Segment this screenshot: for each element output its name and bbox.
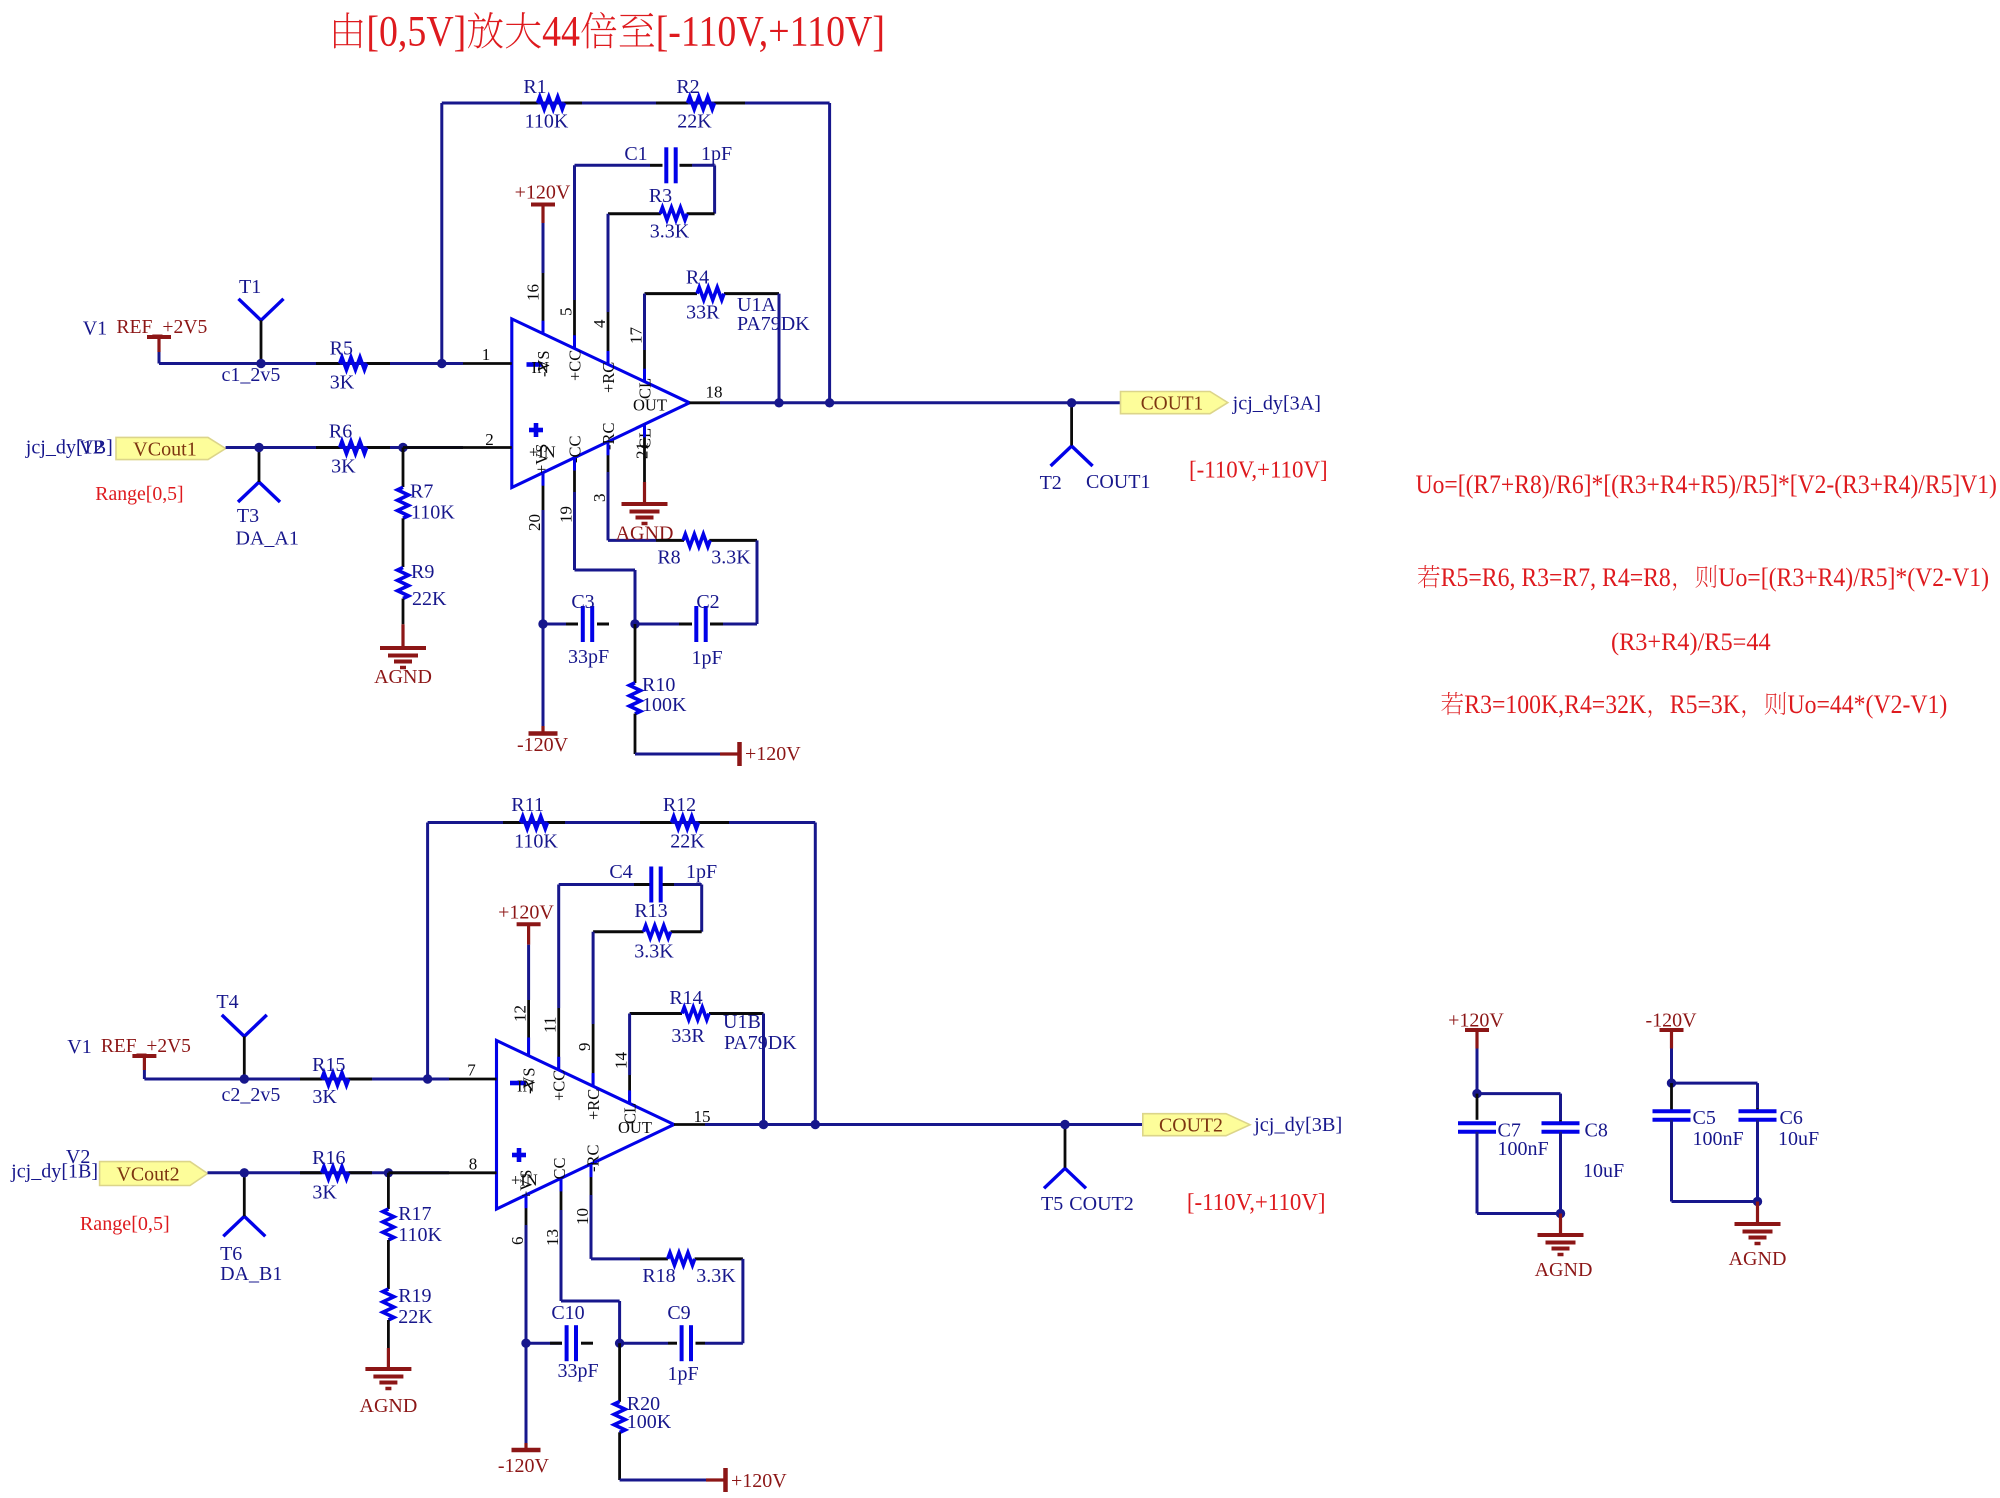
svg-text:-120V: -120V — [517, 734, 569, 756]
resistor R3 3.3K — [608, 185, 715, 243]
ground AGND below R19 — [360, 1320, 418, 1417]
svg-text:COUT2: COUT2 — [1069, 1193, 1133, 1215]
svg-text:+120V: +120V — [498, 902, 554, 924]
svg-text:4: 4 — [590, 319, 609, 328]
svg-text:C3: C3 — [571, 591, 594, 613]
svg-text:COUT1: COUT1 — [1086, 471, 1150, 493]
node: junction C6 bottom — [1753, 1197, 1762, 1206]
svg-text:22K: 22K — [398, 1306, 433, 1328]
power port REF_+2V5 (V1) — [83, 316, 208, 352]
red formula line 1 — [1416, 469, 1997, 499]
power port -120V below pin 20 — [517, 726, 569, 756]
svg-text:VCout2: VCout2 — [116, 1164, 179, 1186]
pin 1 (-IN) lead — [442, 345, 512, 364]
svg-text:DA_B1: DA_B1 — [220, 1263, 282, 1285]
svg-text:33pF: 33pF — [568, 646, 609, 668]
resistor R18 3.3K — [640, 1253, 743, 1287]
svg-text:3K: 3K — [312, 1086, 337, 1108]
net label jcj_dy[3B] — [1253, 1114, 1342, 1136]
svg-text:100nF: 100nF — [1693, 1128, 1744, 1150]
svg-text:C8: C8 — [1585, 1120, 1608, 1142]
svg-text:+120V: +120V — [515, 182, 571, 204]
pin 16 (-VS) lead — [524, 273, 544, 334]
svg-text:OUT: OUT — [618, 1118, 652, 1137]
svg-text:[0,5V]: [0,5V] — [366, 9, 466, 56]
node: junction T4/c2_2v5 — [240, 1074, 249, 1083]
svg-text:C9: C9 — [667, 1302, 690, 1324]
svg-text:[-110V,+110V]: [-110V,+110V] — [1189, 457, 1328, 484]
svg-text:(R3+R4)/R5=44: (R3+R4)/R5=44 — [1611, 627, 1771, 656]
svg-text:C2: C2 — [696, 591, 719, 613]
power port +120V (pin 12 supply) — [498, 902, 554, 945]
svg-text:+CC: +CC — [566, 350, 585, 381]
svg-text:R18: R18 — [642, 1265, 675, 1287]
resistor R13 3.3K — [593, 900, 702, 963]
red annotation Range[0,5] — [95, 483, 183, 505]
svg-text:Uo=[(R7+R8)/R6]*[(R3+R4+R5)/R5: Uo=[(R7+R8)/R6]*[(R3+R4+R5)/R5]*[V2-(R3+… — [1416, 469, 1997, 499]
red annotation [-110V,+110V] bottom — [1187, 1189, 1326, 1216]
wire: R4 right to output node — [778, 294, 781, 403]
svg-text:3K: 3K — [331, 456, 356, 478]
svg-text:REF_+2V5: REF_+2V5 — [101, 1035, 191, 1057]
power port -120V decoupling — [1645, 1010, 1697, 1049]
node: junction C10/C9/R20 — [615, 1339, 624, 1348]
testpoint T2 COUT1 — [1040, 403, 1151, 494]
svg-text:R5: R5 — [330, 338, 353, 360]
testpoint T1 — [239, 276, 284, 364]
power port REF_+2V5 bottom (V1) — [67, 1035, 191, 1070]
svg-text:R14: R14 — [669, 987, 702, 1009]
testpoint T3 DA_A1 — [236, 448, 299, 550]
resistor R14 33R — [630, 987, 764, 1047]
wire: R17 to R19 — [387, 1240, 390, 1289]
svg-text:Uo=[(R3+R4)/R5]*(V2-V1): Uo=[(R3+R4)/R5]*(V2-V1) — [1718, 563, 1989, 592]
svg-text:+RC: +RC — [584, 1089, 603, 1120]
svg-text:22K: 22K — [412, 588, 447, 610]
svg-text:22K: 22K — [670, 831, 705, 853]
resistor R17 110K — [383, 1173, 443, 1246]
svg-text:3K: 3K — [312, 1182, 337, 1204]
wire: +120V to pin 12 — [527, 945, 530, 1000]
power port -120V below pin 6 — [498, 1443, 550, 1477]
svg-text:COUT1: COUT1 — [1141, 393, 1204, 415]
svg-text:8: 8 — [469, 1155, 478, 1174]
svg-text:DA_A1: DA_A1 — [236, 528, 299, 550]
node: junction C8 bottom — [1556, 1209, 1565, 1218]
node: junction T6 — [240, 1168, 249, 1177]
svg-text:3: 3 — [590, 494, 609, 503]
svg-text:Uo=44*(V2-V1): Uo=44*(V2-V1) — [1788, 690, 1948, 719]
pin 3 (-RC) lead and wire to R8 — [590, 442, 656, 540]
svg-text:C4: C4 — [609, 861, 632, 883]
sheet entry V2 overlapping net label jcj_dy[1B] — [25, 437, 113, 459]
capacitor C6 10uF — [1739, 1107, 1820, 1150]
svg-text:T4: T4 — [216, 991, 238, 1013]
resistor R2 22K — [656, 76, 745, 133]
op-amp U1B PA79DK — [497, 1011, 798, 1209]
wire: pin5 to C1 left — [575, 165, 651, 300]
power port +120V (pin 16 supply) — [515, 182, 571, 224]
svg-text:110K: 110K — [514, 831, 558, 853]
resistor R5 3K — [316, 338, 390, 394]
pin 7 (-IN) lead — [428, 1061, 497, 1080]
wire: R18 right to C9 right — [741, 1259, 744, 1343]
wire: feedback rail bottom (R11/R12 row) — [428, 823, 816, 1125]
svg-text:R15: R15 — [312, 1054, 345, 1076]
wire: pin 17 to R4 — [643, 294, 646, 350]
power port +120V right of R10 — [720, 742, 801, 766]
svg-text:3.3K: 3.3K — [711, 547, 751, 569]
resistor R1 110K — [520, 76, 582, 133]
svg-text:21: 21 — [633, 442, 652, 459]
pin 19 (-CC) lead and wire to C3/C2 node — [557, 458, 636, 625]
resistor R16 3K — [300, 1147, 372, 1204]
svg-text:33R: 33R — [671, 1025, 705, 1047]
svg-text:V1: V1 — [67, 1036, 91, 1058]
pin 15 (OUT) lead and wire to COUT2 — [674, 1107, 1143, 1126]
red annotation [-110V,+110V] top — [1189, 457, 1328, 484]
wire: C7/C8 bottoms — [1477, 1132, 1561, 1214]
net label jcj_dy[3A] — [1232, 393, 1321, 415]
svg-text:PA79DK: PA79DK — [724, 1032, 797, 1054]
resistor R10 100K — [630, 624, 688, 716]
wire: R3 left to pin 4 — [607, 214, 610, 312]
svg-text:1pF: 1pF — [701, 143, 732, 165]
node: junction C7 top — [1472, 1089, 1481, 1098]
svg-text:6: 6 — [508, 1237, 527, 1246]
pin 9 (+RC) lead — [575, 1024, 594, 1086]
svg-text:[-110V,+110V]: [-110V,+110V] — [1187, 1189, 1326, 1216]
node: junction C3 left on pin20 wire — [538, 619, 547, 628]
node: junction T1/c1_2v5 — [256, 359, 265, 368]
wire: R10 to +120V — [635, 714, 720, 754]
svg-text:Range[0,5]: Range[0,5] — [95, 483, 183, 505]
port VCout2 — [100, 1162, 208, 1186]
node: junction R4/output — [774, 398, 783, 407]
svg-text:19: 19 — [557, 506, 576, 523]
wire: C5/C6 bottoms — [1672, 1120, 1758, 1202]
svg-text:18: 18 — [706, 383, 723, 402]
svg-text:33pF: 33pF — [557, 1360, 598, 1382]
pin 8 (+IN) lead — [388, 1155, 496, 1174]
svg-text:COUT2: COUT2 — [1159, 1115, 1223, 1137]
svg-text:9: 9 — [575, 1043, 594, 1052]
node: junction R15/feedback bottom — [423, 1074, 432, 1083]
svg-text:10uF: 10uF — [1583, 1160, 1624, 1182]
resistor R11 110K — [503, 794, 565, 853]
wire: pin 11 to C4 left — [559, 885, 634, 1009]
resistor R12 22K — [640, 794, 729, 853]
node: junction T2 — [1067, 398, 1076, 407]
svg-text:R1: R1 — [523, 76, 546, 98]
svg-text:R6: R6 — [329, 421, 352, 443]
svg-text:3.3K: 3.3K — [634, 941, 674, 963]
svg-text:+CC: +CC — [550, 1070, 569, 1101]
svg-text:17: 17 — [627, 327, 646, 345]
pin 17 (CL) lead — [627, 327, 646, 383]
svg-text:R9: R9 — [411, 561, 434, 583]
svg-text:3.3K: 3.3K — [650, 221, 690, 243]
red annotation Range[0,5] bottom — [80, 1213, 170, 1235]
svg-text:110K: 110K — [525, 111, 569, 133]
title: red annotation 由[0,5V]放大44倍至[-110V,+110V] — [334, 9, 885, 56]
pin 4 (+RC) lead — [590, 312, 609, 365]
op-amp U1A PA79DK — [512, 294, 810, 488]
svg-text:+120V: +120V — [745, 743, 801, 765]
capacitor C9 1pF — [620, 1302, 743, 1385]
svg-text:100K: 100K — [642, 694, 687, 716]
wire: VCout1 to R6 — [226, 446, 463, 449]
wire: net c1_2v5 — [159, 352, 442, 386]
pin 10 (-RC) lead and wire to R18 — [573, 1164, 640, 1259]
svg-text:OUT: OUT — [633, 396, 667, 415]
svg-text:C1: C1 — [624, 143, 647, 165]
svg-text:T5: T5 — [1041, 1193, 1063, 1215]
svg-text:12: 12 — [511, 1005, 530, 1022]
resistor R15 3K — [300, 1054, 372, 1108]
blue pin stubs at op-amp edges — [526, 321, 645, 1208]
svg-text:14: 14 — [612, 1052, 631, 1070]
pin 11 (+CC) lead — [541, 1008, 560, 1070]
power port +120V decoupling — [1448, 1010, 1504, 1049]
svg-text:10: 10 — [573, 1208, 592, 1225]
svg-text:VCout1: VCout1 — [133, 439, 197, 461]
svg-text:jcj_dy[3B]: jcj_dy[3B] — [1253, 1114, 1342, 1136]
resistor R8 3.3K — [656, 534, 757, 568]
capacitor C8 10uF — [1542, 1120, 1625, 1183]
port COUT1 — [1121, 392, 1228, 415]
red formula line 3 — [1611, 627, 1771, 656]
ground AGND below C8 — [1535, 1214, 1593, 1282]
svg-text:3.3K: 3.3K — [696, 1265, 736, 1287]
resistor R9 22K — [398, 561, 448, 610]
svg-text:16: 16 — [524, 284, 543, 301]
svg-text:R5=3K: R5=3K — [1670, 690, 1740, 719]
svg-text:R19: R19 — [398, 1285, 431, 1307]
svg-text:5: 5 — [557, 308, 576, 317]
svg-text:T1: T1 — [239, 276, 261, 298]
svg-text:2: 2 — [485, 430, 494, 449]
wire: +120V to C7/C8 — [1477, 1049, 1561, 1121]
svg-text:Range[0,5]: Range[0,5] — [80, 1213, 170, 1235]
svg-text:T6: T6 — [220, 1243, 242, 1265]
svg-text:110K: 110K — [398, 1224, 442, 1246]
svg-text:R13: R13 — [634, 900, 667, 922]
svg-text:PA79DK: PA79DK — [737, 313, 810, 335]
svg-text:-VS: -VS — [520, 1067, 539, 1094]
svg-text:AGND: AGND — [1535, 1259, 1593, 1281]
pin 6 (+VS) lead and wire to -120V — [508, 1195, 527, 1443]
svg-text:R5=R6, R3=R7, R4=R8: R5=R6, R3=R7, R4=R8 — [1441, 563, 1671, 592]
port VCout1 — [116, 437, 226, 460]
wire: +120V to pin 16 — [542, 223, 545, 273]
svg-text:R12: R12 — [663, 794, 696, 816]
svg-text:11: 11 — [541, 1017, 560, 1033]
capacitor C3 33pF — [543, 591, 609, 668]
wire: VCout2 to R16 — [208, 1171, 450, 1174]
node: junction R16/R17 — [384, 1168, 393, 1177]
svg-text:C6: C6 — [1780, 1107, 1803, 1129]
ground AGND below pin 21 — [616, 482, 674, 545]
pin 12 (-VS) lead — [511, 1000, 530, 1056]
node: junction T3 — [254, 443, 263, 452]
ground AGND below R9 — [374, 599, 432, 689]
svg-text:1pF: 1pF — [691, 647, 722, 669]
wire: C1 right to R3 right — [692, 165, 715, 213]
resistor R19 22K — [383, 1285, 433, 1328]
svg-text:R17: R17 — [398, 1203, 431, 1225]
svg-text:R10: R10 — [642, 674, 675, 696]
svg-text:T3: T3 — [237, 505, 259, 527]
wire: R14 right to output node — [762, 1014, 765, 1125]
svg-text:10uF: 10uF — [1778, 1128, 1819, 1150]
node: junction feedback/output bottom — [811, 1120, 820, 1129]
svg-text:44: 44 — [542, 9, 580, 56]
node: junction R6/R7 — [398, 443, 407, 452]
svg-text:-120V: -120V — [498, 1455, 550, 1477]
wire: -120V to C5/C6 — [1672, 1049, 1758, 1109]
wire: C4 right to R13 right — [674, 885, 702, 932]
svg-text:AGND: AGND — [374, 666, 432, 688]
ground AGND below C6 — [1729, 1202, 1787, 1271]
red formula line 4 — [1441, 690, 1947, 719]
node: junction R14/output bottom — [759, 1120, 768, 1129]
resistor R7 110K — [398, 448, 456, 524]
pin 21 (CL) lead — [633, 424, 652, 482]
svg-text:R3: R3 — [649, 185, 672, 207]
svg-text:1pF: 1pF — [667, 1363, 698, 1385]
svg-text:V2: V2 — [79, 437, 103, 459]
pin 20 (+VS) lead and wire to -120V — [525, 473, 544, 726]
svg-text:+RC: +RC — [599, 362, 618, 393]
svg-text:100K: 100K — [627, 1411, 672, 1433]
svg-text:+VS: +VS — [532, 444, 551, 474]
testpoint T6 DA_B1 — [220, 1173, 282, 1285]
net label V2 above jcj_dy[1B] bottom — [10, 1146, 98, 1183]
capacitor C1 1pF — [624, 143, 732, 183]
svg-text:R4: R4 — [686, 267, 709, 289]
pin 18 (OUT) lead and wire to COUT1 — [690, 383, 1121, 403]
svg-text:[-110V,+110V]: [-110V,+110V] — [656, 9, 885, 56]
testpoint T4 — [216, 991, 266, 1079]
svg-text:c1_2v5: c1_2v5 — [222, 364, 281, 386]
wire: R20 to +120V bottom — [620, 1432, 706, 1480]
wire: R8 right to C2 right — [756, 540, 759, 624]
wire: R13 left to pin 9 — [592, 932, 595, 1024]
wire: net c2_2v5 — [144, 1070, 427, 1106]
wire: R7 to R9 — [402, 518, 405, 567]
svg-text:22K: 22K — [677, 111, 712, 133]
svg-text:jcj_dy[3A]: jcj_dy[3A] — [1232, 393, 1321, 415]
svg-text:-RC: -RC — [584, 1144, 603, 1172]
svg-text:110K: 110K — [411, 502, 455, 524]
svg-text:20: 20 — [525, 514, 544, 531]
svg-text:R8: R8 — [657, 547, 680, 569]
svg-text:U1B: U1B — [723, 1011, 761, 1033]
node: junction C5 top — [1667, 1078, 1676, 1087]
wire: feedback rail top (R1/R2 row) — [442, 103, 830, 403]
resistor R20 100K — [614, 1343, 672, 1433]
capacitor C2 1pF — [635, 591, 757, 669]
svg-text:R7: R7 — [410, 481, 433, 503]
svg-text:13: 13 — [543, 1229, 562, 1246]
svg-text:1: 1 — [482, 345, 491, 364]
capacitor C4 1pF — [609, 861, 717, 903]
power port +120V right of R20 — [706, 1468, 787, 1492]
capacitor C5 100nF — [1653, 1083, 1744, 1150]
svg-text:100nF: 100nF — [1498, 1138, 1549, 1160]
capacitor C10 33pF — [526, 1302, 599, 1382]
svg-text:+120V: +120V — [731, 1470, 787, 1492]
svg-text:T2: T2 — [1040, 472, 1062, 494]
pin 5 (+CC) lead — [557, 300, 576, 349]
svg-text:R16: R16 — [312, 1147, 345, 1169]
svg-text:R3=100K,R4=32K: R3=100K,R4=32K — [1464, 690, 1646, 719]
svg-text:c2_2v5: c2_2v5 — [222, 1084, 281, 1106]
svg-text:-VS: -VS — [534, 350, 553, 377]
port COUT2 — [1143, 1114, 1250, 1137]
pin 14 (CL) lead — [612, 1052, 631, 1104]
resistor R6 3K — [316, 421, 390, 478]
svg-text:jcj_dy[1B]: jcj_dy[1B] — [10, 1161, 98, 1183]
pin 13 (-CC) lead and wire to C10/C9 node — [543, 1178, 620, 1343]
svg-text:C5: C5 — [1693, 1107, 1716, 1129]
svg-text:33R: 33R — [686, 302, 720, 324]
svg-text:V1: V1 — [83, 318, 107, 340]
wire: pin 14 to R14 — [628, 1014, 631, 1076]
resistor R4 33R — [645, 267, 780, 324]
node: junction R5/feedback — [437, 359, 446, 368]
red formula line 2 — [1418, 563, 1989, 592]
svg-text:C10: C10 — [551, 1302, 584, 1324]
node: junction C10 left on pin6 wire — [521, 1339, 530, 1348]
pin 2 (+IN) lead — [403, 430, 512, 449]
svg-text:AGND: AGND — [360, 1395, 418, 1417]
svg-text:REF_+2V5: REF_+2V5 — [116, 316, 207, 338]
capacitor C7 100nF — [1458, 1094, 1549, 1160]
svg-text:3K: 3K — [330, 372, 355, 394]
testpoint T5 COUT2 — [1041, 1125, 1134, 1216]
svg-text:R11: R11 — [511, 794, 544, 816]
node: junction C3/C2/R10 — [630, 619, 639, 628]
svg-text:R2: R2 — [676, 76, 699, 98]
svg-text:AGND: AGND — [1729, 1248, 1787, 1270]
svg-text:7: 7 — [467, 1061, 476, 1080]
node: junction feedback/output — [825, 398, 834, 407]
svg-text:1pF: 1pF — [686, 861, 717, 883]
node: junction T5 — [1060, 1120, 1069, 1129]
